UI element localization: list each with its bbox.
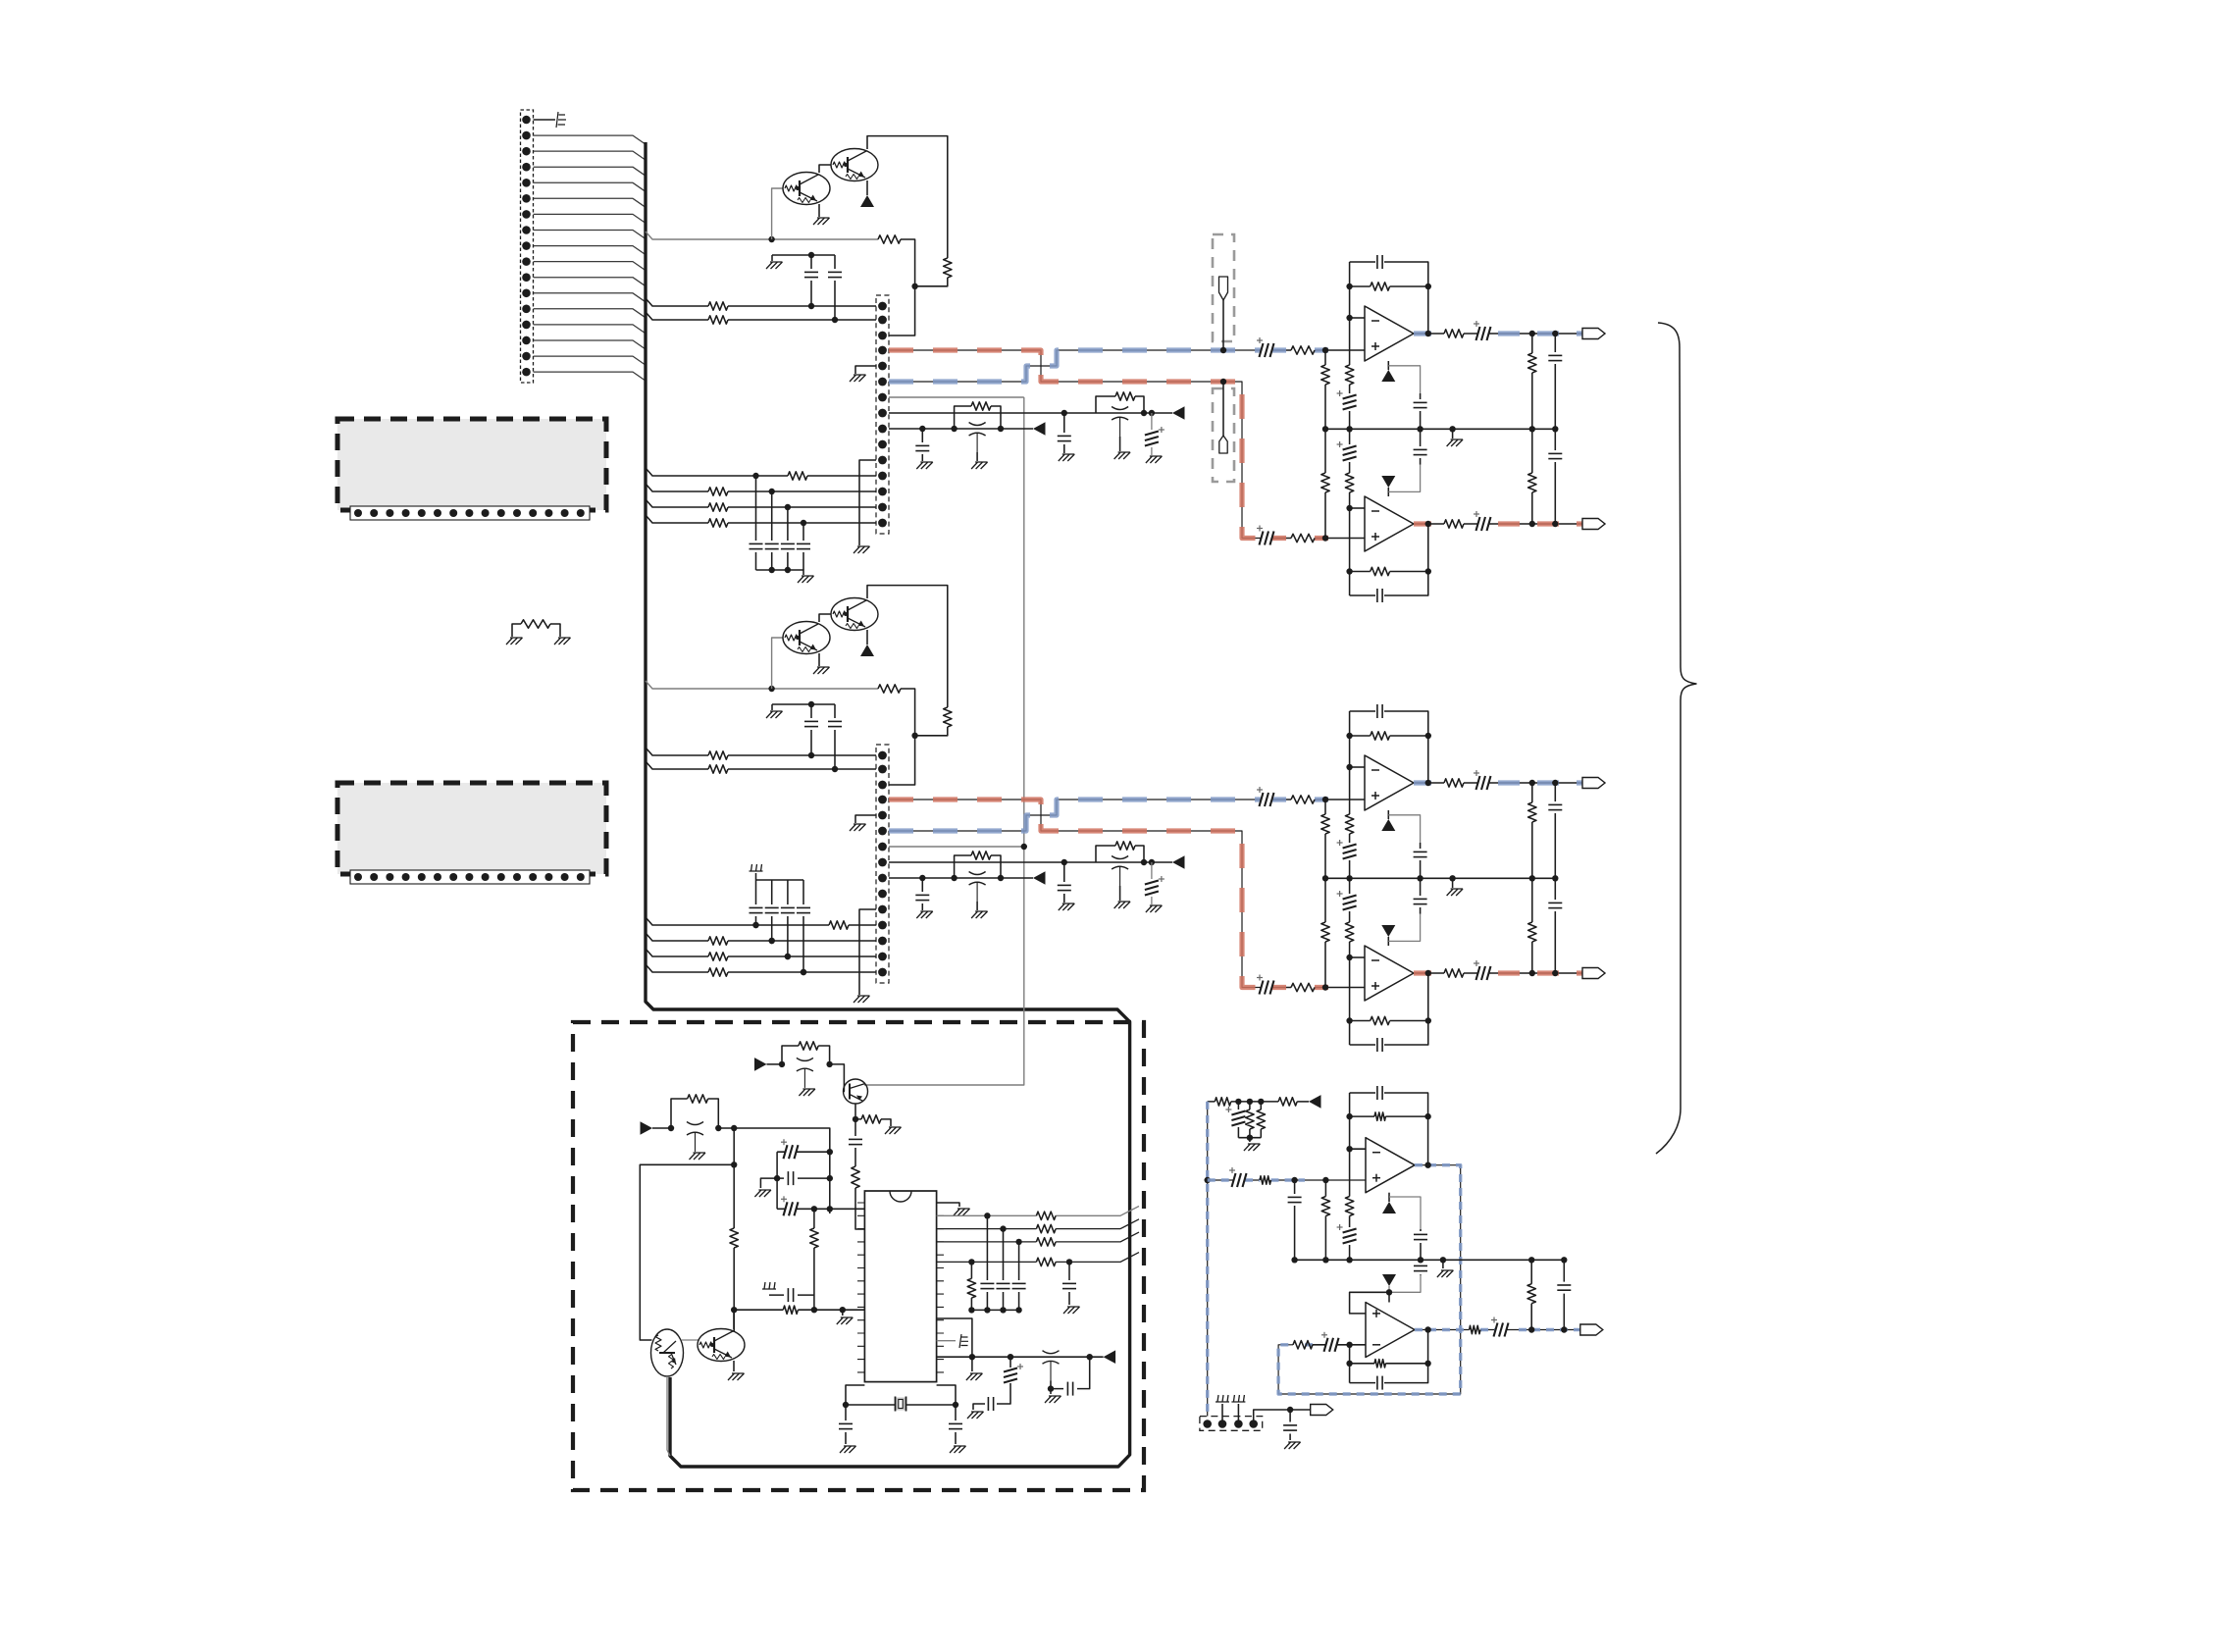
wire Q6 to Q7 base (682, 1339, 699, 1341)
wire B. U1a output (1414, 782, 1444, 784)
offpage arrow A.AR2 (1033, 422, 1046, 436)
node B.C2a (832, 766, 838, 772)
rake CN5 pin2 (1221, 1404, 1223, 1424)
feedback cap A.C5 (1350, 262, 1428, 334)
ecap CE51 (1232, 1173, 1236, 1187)
resistor B.R22 (vert out) (1531, 878, 1533, 973)
offpage arrow B.AR2 (1033, 871, 1046, 885)
resistor A.R9 (788, 472, 807, 480)
resistor A.R12 (708, 519, 728, 527)
resistor B.R7 (bypass) (1096, 846, 1144, 862)
transistor B.Q2 (digital) (831, 598, 878, 631)
node jack ring (1220, 379, 1226, 385)
power V+ U3a (1388, 1193, 1390, 1202)
wire B. pin8 line (889, 861, 1172, 863)
capacitor C55 (vert) (1563, 1260, 1565, 1329)
wire IC pin to node (937, 1318, 972, 1357)
capacitor C47 (xtal) (955, 1405, 957, 1444)
wire IN2 down branch (733, 1128, 735, 1164)
ecap A.CE3 to ground (1151, 413, 1153, 455)
nodes input top (1235, 1099, 1241, 1105)
wire B.R1 to node (901, 689, 915, 736)
terminal B.T2 (cold out) (1582, 968, 1605, 979)
wire B. COLD (blue) path (889, 800, 1261, 831)
resistor R56 (vert) (1324, 1180, 1326, 1260)
node A.F (919, 426, 925, 432)
feedback R59 (U3b) (1350, 1345, 1428, 1383)
wire IN2 (652, 1127, 671, 1129)
capacitor B.C9 (vert out) (1554, 878, 1556, 973)
resistor R33 (bypass) (671, 1099, 718, 1128)
power B.V+ U1a (1387, 810, 1389, 819)
resistor B.R21 (out) (1444, 969, 1464, 977)
wire A. -in U1b (1350, 507, 1365, 509)
transistor B.Q1 (digital) (783, 622, 830, 654)
resistor R31 to ground (855, 1119, 891, 1126)
trimmer A.VC1 (1112, 407, 1128, 410)
resistor R60 (out) (1470, 1325, 1480, 1333)
wire A.R2 bottom (915, 278, 948, 286)
capacitor A.C9 (vert out) (1554, 429, 1556, 524)
wire B. U1b output (1414, 972, 1444, 974)
ecap B.CE6 + resistor R19 (vert -in) (1349, 878, 1351, 957)
ground rail mid (1442, 1260, 1444, 1268)
wire long gray net (pin7 to Q5) (864, 397, 1024, 1085)
resistor R36 row to IC (734, 1309, 864, 1311)
wire B. pin15 line (646, 964, 876, 972)
power A.+B at Q2 emitter (866, 181, 868, 195)
terminal A.T1 (hot out) (1582, 329, 1605, 339)
feedback cap A.C8 (1350, 524, 1428, 595)
feedback A.R20 (1350, 508, 1428, 595)
ground A. pin5 (855, 366, 876, 374)
ecap A.CE1 (red leg) (1260, 532, 1264, 545)
capacitor B.C10 (V- decouple) (1420, 878, 1422, 913)
resistor R42 (1036, 1238, 1056, 1246)
node B.D (1061, 859, 1067, 865)
resistor B.R8 (bypass) (955, 855, 1001, 878)
wire A. pin15 line (646, 515, 876, 523)
capacitor A.C3 to ground (1063, 413, 1065, 453)
resistor R51 (1297, 1101, 1309, 1103)
feedback B.R20 (1350, 957, 1428, 1045)
resistor B.R3 (708, 751, 728, 759)
wire A. HOT (red) path (889, 350, 1261, 539)
terminal T5 (1580, 1324, 1603, 1335)
capacitor C52 (1420, 1229, 1422, 1260)
capacitor C31 (777, 1177, 830, 1179)
resistor R57 + ecap CE52 (vert) (1349, 1149, 1351, 1260)
wire IC right row4 (937, 1253, 1139, 1263)
block box BB1 (gray dashed) (337, 419, 606, 510)
resistor R41 (1036, 1224, 1056, 1232)
resistor B.R18 (vert) (1324, 878, 1326, 987)
ecap CE54 (out) (1494, 1323, 1498, 1337)
wire R32 to IC pin (855, 1188, 864, 1229)
wire A. pin8 line (889, 412, 1172, 414)
resistor R40 (1036, 1212, 1056, 1219)
wire U3b out (blue) (1415, 1329, 1580, 1331)
node A.G (+in U1a) (1322, 347, 1328, 353)
ground node row6 (971, 1357, 973, 1371)
feedback cap B.C5 (1350, 711, 1428, 783)
block box BB2 (gray dashed) (337, 783, 606, 874)
wire B. COLD after ecap (1272, 799, 1365, 800)
wire to Q5 base (830, 1064, 845, 1092)
capacitor C30 (series) (854, 1119, 856, 1166)
wire Q5 emitter chain (854, 1104, 856, 1119)
resistor A.R10 (708, 488, 728, 495)
resistor A.R11 (708, 503, 728, 511)
node B.G (+in U1a) (1322, 797, 1328, 802)
wire -in U3a (1350, 1148, 1366, 1150)
ecap B.CE2 (blue leg) (1260, 793, 1264, 806)
chassis ground CN1 pin1 (534, 119, 556, 121)
ecap CE31 (777, 1208, 864, 1210)
wire A. COLD (blue) path (889, 350, 1261, 382)
resistor R43 (1036, 1258, 1056, 1265)
capacitor bank A (C11-C14) below pin12-15 lines (755, 476, 757, 570)
resistor B.R14 + ecap CE4 (vert -in) (1349, 767, 1351, 878)
power B.V- U1b (1387, 937, 1389, 946)
offpage arrow A.AR1 (1172, 406, 1185, 420)
wire CN5 pin4 to terminal (1254, 1410, 1311, 1424)
rake symbol B cap bank (750, 864, 763, 871)
ecap CE53 (1319, 1344, 1340, 1346)
capacitor C45 (1051, 1357, 1090, 1388)
node A.C1a (808, 303, 814, 309)
feedback cap C54 (U3b) (1350, 1330, 1428, 1383)
rail ecap trio (776, 1152, 778, 1209)
node B.H (+in U1b) (1322, 984, 1328, 990)
resistor A.R3 (708, 302, 728, 310)
wire A.Q1 collector to Q2 base (819, 165, 831, 173)
trimmer VC31 (687, 1122, 703, 1125)
rail input top (1238, 1138, 1261, 1142)
capacitor C53 (1420, 1260, 1422, 1274)
wire A. COLD after ecap (1272, 349, 1365, 351)
ground A.Q1 emitter (818, 204, 820, 217)
resistor B.R16 (out) (1444, 779, 1464, 787)
node A.D (1061, 410, 1067, 416)
node B.E (1141, 859, 1147, 865)
wire U3a out (blue loop) (1278, 1165, 1461, 1394)
offpage arrow IN1 (bottom box) (754, 1058, 767, 1071)
resistor A.R18 (vert) (1324, 429, 1326, 538)
wire A. pin9 line (889, 428, 1033, 430)
offpage arrow AR5 (1104, 1350, 1116, 1364)
wire A. HOT after ecap (1272, 538, 1365, 540)
resistor B.R6 (blue leg) (1291, 796, 1315, 803)
ecap CE40 (1008, 1354, 1013, 1360)
rail A. mid ground rail (1325, 428, 1555, 430)
capacitor C46 (xtal) (845, 1405, 847, 1444)
op-amp B.U1a (1365, 755, 1414, 810)
wire B. pin1 line (646, 748, 876, 755)
ground VC40 (1050, 1389, 1052, 1394)
ground B. pin5 (855, 815, 876, 823)
rail mid (block C) (1295, 1259, 1565, 1261)
connector CN5 (4-pin) (1200, 1417, 1263, 1431)
plug tip symbol (up) (1222, 300, 1224, 350)
node A.E (1141, 410, 1147, 416)
resistor A.R14 + ecap CE4 (vert -in) (1349, 318, 1351, 429)
resistor A.R22 (vert out) (1531, 429, 1533, 524)
rail B cap bank (756, 873, 804, 880)
wire left vertical (blue sleeve) (1207, 1102, 1209, 1424)
feedback cap B.C8 (1350, 973, 1428, 1045)
wire B.Q1 collector to Q2 base (819, 614, 831, 622)
wire B. HOT (red) path (889, 800, 1261, 988)
ecap A.CE6 + resistor R19 (vert -in) (1349, 429, 1351, 508)
resistor R90 between grounds (512, 624, 560, 637)
wire A. base riser (772, 188, 783, 239)
resistor R54 (1260, 1176, 1270, 1184)
wire B.R2 bottom (915, 727, 948, 736)
capacitor bank B (C11-C14) above pin12-15 lines (755, 880, 757, 925)
wire IC right row1 (937, 1207, 1139, 1216)
terminal T6 (1311, 1405, 1333, 1416)
rake + capacitor C32 row (762, 1282, 776, 1289)
feedback R55 (1350, 1093, 1428, 1149)
wire A. node B to pin3 (889, 286, 915, 336)
node gray net junction channel B pin7 (1021, 844, 1027, 850)
wire A. pin14 line (646, 499, 876, 507)
brace (output group) (1656, 323, 1696, 1154)
wire +in U3b (1350, 1292, 1389, 1314)
resistor B.R2 (vertical) (944, 707, 952, 727)
ecap A.CE5 (out) (1464, 333, 1582, 335)
wire A. input gray bus line (646, 232, 878, 239)
trimmer B.VC2 (969, 872, 986, 875)
ground rail (1244, 1144, 1261, 1151)
ground B.Q1 emitter (818, 653, 820, 666)
capacitor B.C1 (771, 704, 773, 710)
capacitor B.C6 (vert out) (1554, 783, 1556, 878)
wire IC right row6 (937, 1356, 1104, 1358)
wire +in U3a (blue) (1208, 1179, 1366, 1181)
capacitor A.C7 (V+ decouple) (1420, 393, 1422, 429)
jack outline J1 (gray dashed) (1213, 234, 1234, 341)
wire A. pin2 line (646, 312, 876, 320)
resistor B.R5 (red leg) (1291, 983, 1315, 991)
rail caps (971, 1309, 1018, 1311)
ground B. pin11 (859, 909, 876, 995)
capacitor B.C2 (834, 704, 836, 769)
wire B. -in U1b (1350, 956, 1365, 958)
node jack tip (1220, 347, 1226, 353)
ecap B.CE5 (out) (1464, 782, 1582, 784)
power A.V- U1b (1387, 488, 1389, 496)
rail B. mid ground rail (1325, 877, 1555, 879)
resistor A.R13 (vert) (1324, 350, 1326, 429)
resistor B.R9 (829, 921, 849, 929)
node sleeve top (1205, 1177, 1211, 1183)
wire IC right row5 (gray) + rake (937, 1340, 956, 1342)
wire B. pin14 line (646, 949, 876, 956)
wire A. pin1 line (646, 298, 876, 306)
wire A. pin12 line (646, 468, 876, 476)
resistor A.R7 (bypass) (1096, 396, 1144, 413)
wire A. U1b output (1414, 523, 1444, 525)
node B.B (911, 733, 917, 739)
node B.C1a (808, 752, 814, 758)
offpage arrow AR6 (1309, 1095, 1321, 1109)
wire IN2 to right vertical (718, 1128, 830, 1213)
ecap B.CE3 to ground (1151, 862, 1153, 904)
terminal B.T1 (hot out) (1582, 778, 1605, 789)
ground R36 row (842, 1310, 844, 1316)
transistor A.Q1 (digital) (783, 173, 830, 205)
capacitor A.C1 (771, 255, 773, 261)
bus vertical trunk + board outline (thick) (646, 142, 1130, 1467)
capacitor B.C4 to ground (921, 878, 923, 910)
resistor B.R11 (708, 953, 728, 960)
capacitor C51 (vert) (1294, 1180, 1296, 1260)
resistor A.R8 (bypass) (955, 406, 1001, 429)
node B.F (919, 875, 925, 881)
wire B. base riser (772, 638, 783, 689)
plug ring symbol (down) (1222, 382, 1224, 436)
resistor A.R16 (out) (1444, 330, 1464, 337)
wire B. pin9 line (889, 877, 1033, 879)
resistor B.R10 (708, 937, 728, 945)
resistor B.R13 (vert) (1324, 800, 1326, 878)
wire IN1 (767, 1063, 783, 1065)
crystal X1 (846, 1385, 956, 1405)
ground A cap bank (798, 576, 814, 583)
ground A. pin11 (859, 460, 876, 545)
capacitor C42 (vert) (1018, 1242, 1020, 1311)
resistor R58 (1293, 1341, 1313, 1349)
capacitor C40 (vert) (986, 1215, 988, 1310)
wire A. -in U1a (1350, 317, 1365, 319)
resistor R52 (vert) (1249, 1102, 1251, 1138)
wire left loop to Q6 (640, 1164, 734, 1340)
block box BB3 (large dashed) (573, 1022, 1144, 1490)
ground C47 (950, 1446, 966, 1453)
power B.+B at Q2 emitter (866, 630, 868, 645)
capacitor C43 + ground (1068, 1262, 1070, 1305)
feedback A.R15 (1350, 262, 1428, 318)
ecap A.CE2 (blue leg) (1260, 343, 1264, 357)
wire Q7 collector (733, 1310, 735, 1329)
capacitor C56 + ground (1289, 1410, 1291, 1440)
capacitor C44 + ground (973, 1404, 985, 1410)
wire A.R1 to node (901, 239, 915, 286)
rail A cap bank (756, 570, 804, 575)
trimmer A.VC2 (969, 423, 986, 426)
transistor Q7 (digital) (698, 1329, 745, 1362)
connector B.CN (15-pin) (876, 745, 889, 983)
resistor A.R21 (out) (1444, 520, 1464, 528)
ground C31 left (760, 1178, 777, 1188)
offpage arrow B.AR1 (1172, 855, 1185, 869)
ecap CE50 (vert) (1237, 1102, 1239, 1138)
trimmer VC40 (1043, 1351, 1060, 1354)
transistor Q6 (digital, vertical) (651, 1329, 684, 1376)
resistor A.R5 (red leg) (1291, 534, 1315, 542)
wire IC right row2 (937, 1219, 1139, 1229)
IC U5 (DIP) (864, 1191, 936, 1382)
capacitor A.C10 (V- decouple) (1420, 429, 1422, 464)
terminal A.T2 (cold out) (1582, 519, 1605, 530)
wire A. pin7 to vertical bus (889, 396, 1024, 398)
wire A. U1a output (1414, 333, 1444, 335)
op-amp A.U1b (1365, 496, 1414, 551)
wire B. node B to pin3 (889, 736, 915, 785)
ecap B.CE7 (out) (1464, 972, 1582, 974)
wires CN1 to bus (534, 135, 647, 144)
capacitor B.C7 (V+ decouple) (1420, 843, 1422, 878)
trimmer VC30 (797, 1058, 813, 1060)
resistor B.R17 (vert out) (1531, 783, 1533, 878)
resistor A.R2 (vertical) (944, 258, 952, 278)
resistor A.R4 (708, 316, 728, 324)
op-amp A.U1a (1365, 306, 1414, 361)
transistor A.Q2 (digital) (831, 149, 878, 181)
wire B.Q2 collector loop (867, 586, 948, 707)
IC U5 pin stubs (857, 1203, 864, 1372)
wire B. HOT after ecap (1272, 987, 1365, 989)
wire -in U3b (blue) (1305, 1344, 1366, 1346)
op-amp B.U1b (1365, 946, 1414, 1001)
resistor R32 (vert) (852, 1166, 859, 1188)
connector FFC1 dot row (350, 506, 590, 520)
wire A. pin13 line (646, 484, 876, 491)
ground Q7 emitter (733, 1361, 735, 1371)
connector A.CN (15-pin) (876, 295, 889, 534)
wire Q6 emitter to frame (667, 1376, 670, 1456)
power A.V+ U1a (1387, 361, 1389, 370)
rake CN5 pin3 (1237, 1404, 1239, 1424)
ecap CE30 (777, 1151, 830, 1153)
node B.A (768, 686, 774, 692)
resistor R35 (vert) (813, 1209, 815, 1228)
node IN2a (731, 1125, 737, 1131)
op-amp U3b (inverted) (1366, 1303, 1415, 1358)
transistor Q5 (844, 1079, 868, 1104)
capacitor A.C2 (834, 255, 836, 320)
offpage arrow IN2 (bottom box) (641, 1121, 653, 1135)
resistor R53 (vert) (1260, 1102, 1262, 1138)
ground B. rail (1452, 878, 1454, 888)
trimmer B.VC1 (1112, 856, 1128, 859)
wire IC right row3 (937, 1232, 1139, 1242)
capacitor C41 (vert) (1003, 1229, 1005, 1311)
ecap A.CE7 (out) (1464, 523, 1582, 525)
capacitor B.C3 to ground (1063, 862, 1065, 903)
wire B. pin7 to vertical bus (889, 846, 1024, 848)
ground A. rail (1452, 429, 1454, 439)
node A.C2a (832, 317, 838, 323)
wire B. pin2 line (646, 761, 876, 769)
wire B. -in U1a (1350, 766, 1365, 768)
feedback B.R15 (1350, 711, 1428, 767)
resistor R34 (vert) (733, 1164, 735, 1228)
resistor R44 (vert) (970, 1262, 972, 1278)
resistor A.R17 (vert out) (1531, 334, 1533, 429)
resistor R61 (vert) (1530, 1260, 1532, 1329)
node A.B (911, 284, 917, 289)
wire B. pin12 line (646, 917, 876, 925)
connector FFC2 dot row (350, 870, 590, 884)
ground IC top-right (937, 1203, 959, 1207)
resistor A.R6 (blue leg) (1291, 346, 1315, 354)
wire A.Q2 collector loop (867, 136, 948, 258)
feedback cap C50 (1350, 1093, 1428, 1165)
resistor B.R4 (708, 765, 728, 773)
